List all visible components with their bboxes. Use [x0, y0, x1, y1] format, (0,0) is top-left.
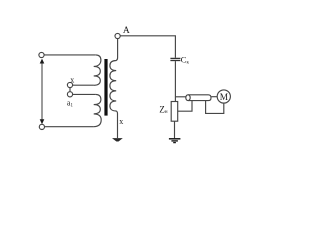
- input span arrowhead down: [40, 119, 45, 124]
- svg-text:x: x: [70, 75, 74, 84]
- capacitor Ck top plate: [170, 57, 180, 59]
- terminal: tap a1: [67, 92, 72, 97]
- wire: vibrator right end to motor: [211, 96, 217, 98]
- svg-text:x: x: [119, 117, 123, 126]
- wire: resistor right side to vibrator bottom left: [178, 101, 192, 112]
- terminal: A (secondary top): [115, 33, 120, 38]
- wire: top-left terminal to primary top: [44, 54, 96, 56]
- terminal: tap x: [67, 82, 72, 87]
- motor M circle: [217, 90, 230, 103]
- input span double-arrow shaft: [41, 60, 43, 123]
- wire: link between x and a1 terminals: [69, 88, 71, 92]
- wire: capacitor to junction and resistor top: [174, 61, 176, 101]
- transformer T1 core: [104, 59, 107, 116]
- wire: x terminal to primary: [73, 84, 94, 86]
- wire: A terminal to capacitor branch: [120, 36, 175, 58]
- transformer T1 primary winding upper section: [94, 55, 101, 85]
- input span arrowhead up: [40, 59, 45, 64]
- transformer T1 secondary winding: [110, 39, 118, 138]
- terminal: bottom-left input: [39, 124, 44, 129]
- wire: motor bottom loop to vibrator bottom right: [206, 101, 224, 114]
- resistor Zn body: [171, 102, 178, 122]
- vibrator cylinder body: [188, 95, 211, 101]
- transformer T1 primary winding lower section: [94, 94, 102, 126]
- wire: junction branch to vibrator left cap: [175, 96, 185, 98]
- terminal: top-left input: [39, 52, 44, 57]
- ground arrow at secondary bottom: [112, 138, 123, 141]
- vibrator left end cap: [186, 95, 190, 101]
- earth ground bar 2: [171, 140, 178, 142]
- svg-text:A: A: [123, 26, 130, 36]
- svg-text:M: M: [220, 93, 229, 103]
- capacitor Ck bottom plate: [170, 60, 180, 62]
- wire: resistor bottom to earth: [174, 121, 176, 138]
- earth ground bar 3: [173, 142, 176, 144]
- wire: bottom-left terminal to primary bottom: [45, 126, 94, 128]
- wire: a1 terminal to primary: [73, 93, 96, 95]
- earth ground bar 1: [169, 138, 181, 140]
